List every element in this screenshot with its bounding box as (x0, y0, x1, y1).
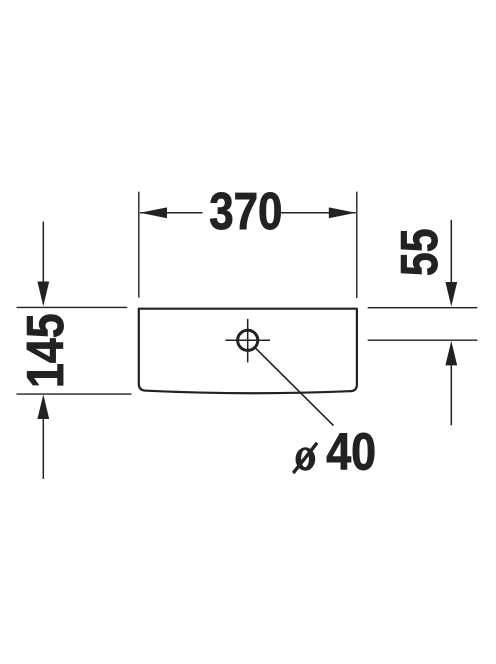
tank outline (top view) (139, 309, 357, 394)
svg-text:55: 55 (390, 229, 448, 277)
leader line to drain label (255, 347, 334, 425)
arrowhead 370 right (329, 207, 356, 218)
dimension line 145 top segment (42, 222, 44, 292)
extension line left of dimension 370 (138, 192, 140, 298)
dimension line 55 bottom segment (450, 355, 452, 425)
crosshair horizontal centerline (226, 339, 270, 341)
arrowhead 370 left (140, 207, 167, 218)
dimension line 55 top segment (450, 220, 452, 292)
extension line top of dimension 145 (17, 306, 128, 308)
drain hole circle (238, 330, 258, 350)
arrowhead 55 bottom (445, 341, 457, 366)
drain label ø slash (293, 443, 317, 473)
dimension line 145 bottom segment (42, 410, 44, 479)
drain label ø inner hole (301, 450, 309, 467)
extension line right of dimension 370 (356, 192, 358, 298)
drain label ø outer oval (296, 447, 316, 471)
extension line top of dimension 55 (368, 307, 478, 309)
dimension line 370 right segment (281, 212, 356, 214)
arrowhead 55 top (445, 282, 457, 307)
arrowhead 145 bottom (37, 395, 49, 420)
svg-text:145: 145 (16, 313, 74, 388)
arrowhead 145 top (37, 282, 49, 307)
svg-text:40: 40 (326, 422, 376, 480)
svg-text:370: 370 (209, 182, 282, 240)
extension line bottom of dimension 55 (368, 339, 478, 341)
extension line bottom of dimension 145 (17, 393, 132, 395)
dimension line 370 left segment (140, 212, 203, 214)
crosshair vertical centerline (247, 319, 249, 363)
